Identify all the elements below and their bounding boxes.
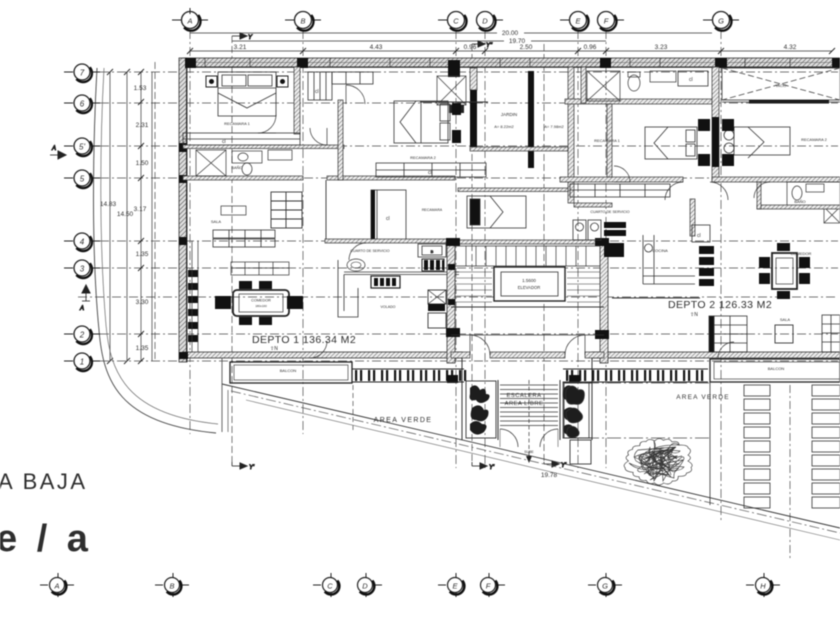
- jardin west wall upper: [470, 68, 477, 90]
- section arrow A left lower: [79, 285, 90, 312]
- door arc recamara1 right entry: [614, 166, 630, 182]
- escalera lower walls: [462, 358, 592, 440]
- core south wall east gap: [585, 352, 604, 358]
- core column top left: [446, 238, 460, 246]
- svg-text:CUARTO DE SERVICIO: CUARTO DE SERVICIO: [590, 210, 629, 214]
- grid bubbles top row: [172, 8, 739, 31]
- bubble G top: [703, 12, 739, 31]
- svg-text:C: C: [453, 17, 459, 26]
- grid line C vertical: [455, 30, 457, 468]
- grid line parking dashed: [789, 385, 791, 558]
- right apt top vertical wall: [581, 67, 586, 103]
- grid line 7 horizontal: [100, 71, 838, 73]
- jardin south wall: [470, 147, 568, 151]
- svg-text:H: H: [760, 581, 766, 590]
- svg-text:cl: cl: [222, 139, 226, 145]
- kitchen left lower appliance: [428, 313, 446, 328]
- svg-text:BALCON: BALCON: [768, 366, 785, 371]
- grid bubbles bottom row: [40, 573, 780, 597]
- stair side treads right: [567, 272, 600, 302]
- section line Y3 vertical: [543, 44, 545, 462]
- dimension line top segments: [190, 50, 832, 52]
- bubble D top: [477, 12, 504, 31]
- closet band left apt: [376, 163, 486, 177]
- dimension line 14.83 vertical: [109, 72, 111, 361]
- sala shelf: [271, 192, 302, 228]
- svg-text:CUARTO DE SERVICIO: CUARTO DE SERVICIO: [350, 249, 389, 253]
- grid line 1 horizontal: [100, 360, 838, 362]
- section line Y2 vertical: [471, 44, 473, 462]
- column bottom left: [179, 352, 188, 359]
- wall sala-cocina left: [325, 180, 327, 239]
- bubble B top: [285, 12, 321, 31]
- bubble 5p: [64, 138, 100, 156]
- svg-text:3: 3: [80, 265, 85, 274]
- nightstand bed2 bottom: [452, 130, 461, 143]
- bottom wall depto1: [183, 352, 462, 358]
- wall north service room: [458, 188, 568, 192]
- grid line A vertical: [189, 30, 191, 434]
- bed recamara2 right apt: [724, 127, 790, 158]
- railing right segment: [563, 369, 708, 382]
- svg-text:⇧N: ⇧N: [270, 346, 278, 352]
- bath2 toilet dark: [449, 105, 464, 113]
- section arrow Y2 top: [472, 41, 493, 49]
- bubble C top: [438, 12, 467, 31]
- sala shelf depto2: [709, 316, 747, 352]
- svg-text:4.43: 4.43: [370, 44, 383, 51]
- grid line B vertical: [302, 30, 304, 434]
- planter box right escalera: [563, 383, 592, 438]
- right apt wall under top bathrooms: [565, 99, 712, 104]
- svg-text:E: E: [452, 581, 458, 590]
- washer right apt: [573, 220, 601, 240]
- svg-text:B: B: [431, 249, 434, 254]
- wall stub black right escalera: [569, 375, 580, 383]
- bubble 3: [64, 260, 100, 278]
- svg-text:B: B: [169, 581, 174, 590]
- svg-text:G: G: [718, 17, 724, 26]
- svg-text:BAÑO: BAÑO: [231, 165, 242, 170]
- svg-text:RECAMARA: RECAMARA: [422, 208, 443, 212]
- core right wall: [600, 244, 608, 363]
- closet cl top right: [678, 71, 708, 86]
- bath left shower: [196, 150, 226, 176]
- kitchen left fridge: [428, 290, 446, 311]
- planter box left escalera: [466, 381, 496, 438]
- grid line F vertical: [605, 30, 607, 468]
- closet band under recamara1: [183, 133, 300, 145]
- column left y148: [179, 143, 187, 152]
- elevator shaft: [494, 267, 565, 301]
- bath2 counter line: [420, 101, 488, 103]
- svg-text:5': 5': [79, 143, 85, 152]
- bubble F bottom: [481, 573, 506, 597]
- nightstand bed2 top: [452, 103, 461, 115]
- wall over bathroom left: [183, 145, 344, 149]
- stair treads upper: [455, 246, 600, 266]
- core column bottom left: [446, 328, 460, 337]
- central strip east wall: [568, 67, 574, 203]
- svg-text:AREA VERDE: AREA VERDE: [676, 394, 730, 401]
- chairs dining depto2: [759, 243, 810, 299]
- service table: [347, 259, 365, 271]
- section line A horizontal: [78, 296, 838, 298]
- left boundary ticks: [107, 69, 144, 364]
- svg-text:3.21: 3.21: [234, 44, 247, 51]
- wall south living right: [612, 297, 700, 299]
- grid bubbles left column: [64, 64, 100, 371]
- corridor wall right apt: [690, 199, 695, 236]
- bubble A top: [172, 8, 208, 31]
- bed recamara1 right apt: [645, 127, 697, 159]
- cocina right stove: [699, 246, 714, 286]
- sala table depto2: [775, 325, 793, 343]
- grid line 5p horizontal: [100, 145, 838, 147]
- site west curve inner: [101, 68, 218, 424]
- section arrow Y bottom mid: [472, 462, 495, 471]
- svg-text:COMEDOR: COMEDOR: [251, 299, 271, 303]
- area verde left planter strip: [563, 382, 589, 438]
- grid line E vertical: [577, 30, 579, 468]
- balcony depto1: [230, 362, 352, 383]
- section arrow A left upper: [50, 146, 66, 159]
- svg-text:14.83: 14.83: [100, 201, 117, 208]
- closet cl mid right: [692, 225, 710, 242]
- dimension line 14.50 vertical: [126, 72, 128, 361]
- svg-text:VOLADO: VOLADO: [381, 305, 396, 309]
- svg-text:A= 8.22m2: A= 8.22m2: [494, 124, 514, 129]
- sala shelf right edge depto2: [822, 315, 840, 352]
- svg-text:0.96: 0.96: [464, 44, 477, 51]
- site boundary diagonal outer: [222, 384, 840, 528]
- grid line 3 horizontal: [100, 267, 838, 269]
- bed recamara2 left apt: [394, 101, 450, 143]
- bubble 7: [64, 64, 100, 82]
- svg-text:SALA: SALA: [780, 317, 791, 322]
- partition south bano left: [183, 176, 303, 180]
- wall F line right apt: [607, 104, 612, 177]
- svg-text:DEPTO 1 136.34 M2: DEPTO 1 136.34 M2: [252, 334, 356, 346]
- svg-text:A: A: [53, 581, 59, 590]
- shower right corner: [824, 207, 840, 223]
- kitchen left counter top: [344, 272, 459, 275]
- svg-text:5: 5: [80, 175, 85, 184]
- grid line G vertical: [720, 30, 722, 520]
- svg-text:⇧N: ⇧N: [690, 312, 698, 318]
- svg-text:cl: cl: [428, 170, 432, 176]
- bubble A bottom: [40, 573, 74, 597]
- svg-text:BAÑO: BAÑO: [794, 199, 805, 204]
- boiler black left: [422, 259, 444, 271]
- kitchen left sink unit: [371, 276, 400, 288]
- area verde dashed horizontal upper: [563, 382, 710, 384]
- svg-text:F: F: [604, 17, 609, 26]
- bubble E top: [560, 12, 589, 31]
- svg-text:A= 7.98m2: A= 7.98m2: [544, 124, 564, 129]
- closet cl service thick edge: [371, 190, 375, 240]
- svg-text:Y': Y': [249, 465, 255, 471]
- window frames left wall: [188, 270, 198, 342]
- svg-text:1.53: 1.53: [134, 85, 147, 92]
- bubble E bottom: [438, 573, 464, 597]
- svg-text:A: A: [51, 146, 56, 152]
- right apt bedroom divider black segment: [712, 117, 719, 167]
- svg-text:14.50: 14.50: [117, 211, 134, 218]
- svg-text:B: B: [300, 17, 305, 26]
- closet cl service left: [371, 190, 406, 240]
- column left y178: [179, 175, 187, 183]
- boiler black right: [604, 222, 626, 257]
- bath left toilet: [242, 150, 292, 175]
- svg-text:cl: cl: [315, 89, 319, 95]
- door arc corridor to recamara2: [346, 85, 365, 104]
- tree scribble: [624, 439, 692, 485]
- core top wall: [447, 240, 608, 244]
- svg-text:3.23: 3.23: [655, 44, 668, 51]
- svg-text:Y': Y': [489, 465, 495, 471]
- sala sofa: [213, 230, 275, 247]
- core column top right: [595, 238, 609, 246]
- svg-text:cl: cl: [697, 233, 701, 239]
- bubble F top: [598, 12, 625, 31]
- svg-text:e / a: e / a: [0, 518, 92, 560]
- escalera exit door arcs: [500, 429, 558, 447]
- door arc balcony depto2: [718, 342, 734, 358]
- column top B: [297, 58, 308, 68]
- balcony left vertical edge: [221, 358, 223, 432]
- stair side treads left: [455, 272, 492, 302]
- svg-text:20.00: 20.00: [502, 30, 519, 37]
- sala coffee table: [221, 206, 246, 215]
- bubble 5: [64, 170, 100, 188]
- bath2 shower left apt: [437, 76, 466, 105]
- counter top right apt: [650, 71, 676, 82]
- bubble D bottom: [358, 573, 383, 597]
- balcony depto2: [710, 359, 840, 382]
- wall north cuarto servicio: [325, 239, 455, 243]
- bubble 4: [64, 233, 100, 251]
- dimension line left segments: [140, 72, 142, 361]
- svg-text:cl: cl: [689, 77, 693, 83]
- svg-text:BALCON: BALCON: [280, 368, 297, 373]
- svg-text:1.50: 1.50: [136, 160, 149, 167]
- svg-text:JARDIN: JARDIN: [501, 112, 517, 117]
- svg-text:1.5600: 1.5600: [522, 278, 536, 283]
- railing left segment: [352, 369, 466, 382]
- cocina right counters: [643, 235, 695, 284]
- grid line D vertical: [484, 30, 486, 468]
- core south wall west gap: [451, 352, 470, 358]
- grid line 5 horizontal: [100, 177, 838, 179]
- section line Y vertical: [231, 36, 233, 462]
- dimension line 19.70: [232, 40, 504, 42]
- svg-text:RECAMARA 1: RECAMARA 1: [224, 121, 251, 126]
- SEC-GRID2: [107, 33, 835, 364]
- dimension ticks top: [187, 48, 835, 54]
- svg-text:3.30: 3.30: [136, 299, 149, 306]
- top exterior wall: [183, 58, 840, 67]
- shaft door marks west wall: [448, 264, 455, 270]
- site west curve outer: [93, 68, 216, 433]
- door arcs vestibule right apt: [665, 182, 728, 200]
- site boundary diagonal inner: [231, 391, 840, 533]
- svg-text:E: E: [575, 17, 581, 26]
- bubble 2: [64, 326, 100, 344]
- core south wall center: [490, 352, 565, 358]
- corridor wall left apt: [338, 100, 343, 180]
- svg-text:6: 6: [80, 100, 85, 109]
- svg-text:C: C: [327, 581, 333, 590]
- wall south bano right: [757, 205, 840, 209]
- svg-text:AREA VERDE: AREA VERDE: [374, 417, 433, 424]
- bano right room: [787, 182, 840, 207]
- dimension line 20.00: [190, 32, 497, 34]
- wall under skylight black: [749, 100, 829, 104]
- svg-text:2.50: 2.50: [520, 44, 533, 51]
- bed recamara1 left: [218, 72, 276, 116]
- right apt south bedroom wall east: [712, 177, 840, 182]
- bubble 6: [64, 95, 100, 113]
- vestibule wall: [451, 334, 604, 336]
- svg-text:DEPTO 2 126.33 M2: DEPTO 2 126.33 M2: [668, 299, 772, 311]
- svg-text:2: 2: [79, 331, 85, 340]
- svg-text:1.35: 1.35: [136, 345, 149, 352]
- wall east corridor right: [757, 182, 761, 209]
- wall south corridor right: [574, 203, 612, 207]
- svg-text:AREA LIBRE: AREA LIBRE: [505, 401, 544, 407]
- svg-text:RECAMARA 2: RECAMARA 2: [410, 155, 437, 160]
- svg-text:2.31: 2.31: [136, 122, 149, 129]
- svg-text:7: 7: [80, 69, 85, 78]
- svg-text:1.35: 1.35: [136, 251, 149, 258]
- svg-text:D: D: [482, 17, 488, 26]
- svg-text:F: F: [486, 581, 491, 590]
- partition recamara1-corridor left apt: [294, 67, 300, 134]
- column top A: [185, 58, 196, 68]
- column left y241: [179, 237, 187, 245]
- section arrow Y top: [232, 33, 253, 41]
- svg-text:SUBE: SUBE: [524, 450, 534, 454]
- dashed vertical left strip: [154, 62, 156, 360]
- skylight X top right: [722, 68, 840, 100]
- escalera lower treads: [500, 380, 558, 456]
- column top G: [715, 58, 727, 68]
- column top F: [600, 58, 611, 68]
- bath left counter: [232, 151, 262, 163]
- svg-text:1: 1: [80, 358, 84, 367]
- washer box: [418, 244, 446, 257]
- svg-text:180x100: 180x100: [255, 304, 267, 308]
- door arc cuarto servicio left: [349, 243, 366, 260]
- svg-text:A BAJA: A BAJA: [0, 469, 88, 494]
- svg-text:4.32: 4.32: [784, 44, 797, 51]
- area verde dashed horizontal lower: [563, 437, 711, 439]
- dining table depto2: [772, 253, 797, 289]
- parking column 1: [744, 385, 770, 508]
- grid line 4 horizontal: [100, 240, 838, 242]
- parking column 2: [812, 385, 840, 508]
- svg-text:ESCALERA: ESCALERA: [507, 393, 542, 399]
- right apt bedroom divider wall: [712, 67, 719, 182]
- closet band right apt: [570, 184, 670, 197]
- bubble H bottom: [746, 573, 780, 597]
- svg-text:4: 4: [80, 238, 85, 247]
- nightstands cluster right apt: [698, 119, 734, 166]
- top wall window mullions: [205, 58, 790, 67]
- svg-text:ELEVADOR: ELEVADOR: [518, 285, 541, 290]
- core lower wall: [451, 306, 604, 308]
- core left wall: [447, 244, 455, 363]
- grid line 6 horizontal: [100, 102, 838, 104]
- closet vertical corridor: [308, 72, 332, 100]
- svg-text:D: D: [362, 581, 368, 590]
- svg-text:Y": Y": [486, 43, 493, 49]
- jardin divider wall black: [528, 71, 534, 168]
- bubble 1: [64, 353, 100, 371]
- svg-text:0.96: 0.96: [584, 44, 597, 51]
- door arc recamara1 left: [258, 115, 276, 133]
- sala rug: [231, 262, 289, 275]
- column top C: [448, 60, 460, 77]
- area verde left bed line: [227, 390, 229, 432]
- service table inner: [351, 262, 361, 268]
- area verde right boundary vertical: [709, 380, 711, 505]
- svg-text:VACIO: VACIO: [776, 84, 787, 88]
- svg-text:COCINA: COCINA: [652, 248, 668, 253]
- door arc bano right: [754, 182, 770, 198]
- kitchen left counter column: [338, 260, 358, 317]
- svg-text:RECAMARA 2: RECAMARA 2: [801, 137, 828, 142]
- bubble G bottom: [588, 573, 622, 597]
- dining table depto1: [233, 290, 289, 316]
- svg-text:COMEDOR: COMEDOR: [791, 251, 812, 256]
- svg-text:A: A: [186, 17, 192, 26]
- section arrow Y bottom left: [232, 462, 255, 471]
- svg-text:RECAMARA 1: RECAMARA 1: [594, 138, 621, 143]
- chairs dining depto1: [215, 281, 303, 325]
- right apt south bedroom wall: [560, 177, 683, 182]
- svg-text:3.17: 3.17: [134, 206, 147, 213]
- window sill lines left wall: [191, 241, 193, 352]
- dashed vertical balcony right edge: [352, 385, 354, 433]
- svg-text:A: A: [79, 306, 84, 312]
- svg-text:SALA: SALA: [211, 219, 222, 224]
- svg-text:G: G: [602, 581, 608, 590]
- left exterior wall: [179, 58, 187, 362]
- bubble B bottom: [155, 573, 189, 597]
- nightstand left bed1: [206, 76, 217, 87]
- small patio square: [570, 440, 591, 464]
- toilet right apt: [628, 72, 640, 91]
- partition south closet left: [327, 176, 455, 180]
- grid line 2 horizontal: [100, 333, 838, 335]
- svg-text:cl: cl: [386, 216, 390, 222]
- wall stub black left escalera: [447, 375, 458, 383]
- svg-text:Y: Y: [248, 35, 253, 41]
- wall under skylight thin: [722, 101, 840, 103]
- closet row top corridor: [332, 72, 373, 84]
- bubble C bottom: [313, 573, 339, 597]
- jardin west wall black: [470, 90, 477, 148]
- door arc balcony depto1: [310, 341, 327, 358]
- stair down arrow: [526, 456, 532, 463]
- section arrow Y bottom right: [544, 461, 567, 469]
- nightstand right bed1: [277, 76, 288, 87]
- door arc sala entry: [310, 128, 327, 145]
- column top right edge: [832, 58, 840, 68]
- vestibule doors: [470, 335, 585, 355]
